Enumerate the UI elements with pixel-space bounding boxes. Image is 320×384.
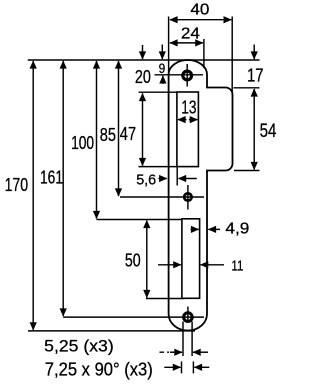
svg-text:100: 100 (71, 132, 94, 153)
lower cutout (182, 219, 200, 298)
lower cutout bottom extension (146, 298, 185, 300)
crosshair hole top (155, 64, 204, 87)
crosshair hole middle (horizontal = 85 ext) (120, 185, 204, 210)
dim 4,9 arrows (191, 228, 199, 230)
row2 ticks (182, 362, 194, 374)
dim 7,25 arrows (164, 366, 180, 368)
svg-text:40: 40 (190, 2, 209, 19)
dim 17 top arrow (253, 45, 255, 60)
dim 11 arrows (158, 264, 181, 266)
hole top (183, 71, 192, 80)
dim 100 (96, 61, 98, 219)
svg-text:50: 50 (125, 250, 141, 271)
dim 5,25 arrows (160, 351, 170, 353)
dim 161 (62, 61, 64, 316)
svg-text:11: 11 (231, 258, 243, 274)
crosshair hole bottom (horizontal = 161 ext) (63, 307, 204, 323)
svg-text:5,6: 5,6 (136, 172, 156, 188)
dim 5,6 arrows (158, 178, 166, 180)
svg-text:47: 47 (120, 123, 136, 144)
24 right extension (203, 39, 205, 68)
dim 20 top arrow (142, 45, 144, 59)
dim 50 (146, 221, 148, 298)
dim 24 (170, 42, 203, 44)
plate outline (169, 60, 233, 331)
svg-text:9: 9 (159, 61, 166, 77)
dim 85 (118, 61, 120, 196)
cutout top extension (139, 91, 177, 93)
svg-text:54: 54 (260, 121, 277, 142)
dim 13 arrows (178, 119, 187, 121)
top reference line (28, 59, 260, 61)
bottom hole ext lines down (183, 322, 192, 357)
lower cutout top extension (97, 219, 182, 221)
svg-text:85: 85 (100, 124, 116, 145)
svg-text:17: 17 (247, 64, 264, 85)
bottom reference line (28, 330, 195, 332)
svg-text:20: 20 (135, 66, 151, 87)
dim 54 (shares 17 bottom arrow) (253, 89, 255, 170)
dim 9 bottom arrow (162, 76, 164, 84)
cutout bottom extension (139, 166, 177, 168)
cutout left edge extension down (176, 167, 178, 186)
hole bottom (184, 313, 193, 322)
tab top extension (234, 87, 260, 89)
svg-text:170: 170 (5, 174, 29, 195)
svg-text:13: 13 (181, 96, 196, 117)
40 right extension (231, 17, 233, 96)
svg-text:5,25 (x3): 5,25 (x3) (44, 336, 114, 355)
upper cutout (177, 92, 199, 167)
tab bottom extension (234, 170, 260, 172)
dim 170 (32, 61, 34, 330)
left edge extension up (168, 17, 170, 75)
dim 9 top arrow (161, 45, 163, 60)
dim 47 (shares 20 bottom arrow) (142, 93, 144, 165)
svg-text:161: 161 (40, 166, 63, 187)
dim 40 (170, 19, 231, 21)
svg-text:4,9: 4,9 (225, 221, 249, 238)
svg-text:24: 24 (181, 25, 200, 42)
hole middle (184, 193, 191, 200)
svg-text:7,25 x 90° (x3): 7,25 x 90° (x3) (45, 360, 153, 380)
